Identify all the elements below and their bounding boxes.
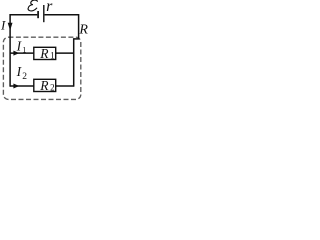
svg-text:I: I	[0, 18, 6, 33]
svg-text:2: 2	[50, 83, 55, 93]
svg-text:1: 1	[50, 51, 55, 61]
svg-text:2: 2	[22, 72, 27, 82]
svg-text:R: R	[78, 22, 88, 37]
svg-text:r: r	[46, 0, 53, 15]
svg-text:R: R	[39, 46, 49, 61]
svg-text:1: 1	[22, 45, 26, 54]
svg-text:R: R	[39, 78, 49, 93]
